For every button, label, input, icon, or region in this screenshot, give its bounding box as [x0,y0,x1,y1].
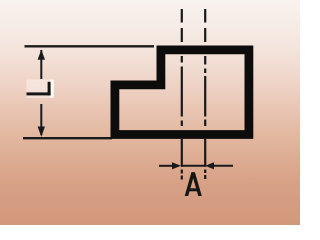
arrowhead up (L dimension) [38,50,45,60]
arrowhead down (L dimension) [38,127,45,137]
label L (rotated, drawn as strokes) [27,82,51,96]
centerline left, dashes below dimension line [181,170,183,174]
label A (drawn as strokes) [185,172,202,196]
centerline left, dashes above part [181,9,183,23]
label background box for L [27,80,54,99]
dimension line L upper shaft [40,50,42,79]
centerline right, dashes inside part [204,56,206,65]
dimension line L lower shaft [40,104,42,135]
centerline left, solid extension below part [181,139,183,167]
arrow left tail (A dimension) [159,165,173,167]
arrowhead left pointing right (A dimension) [172,162,181,169]
centerline right, dashes above part [204,9,206,23]
dimension line A connector between centerlines [182,165,205,167]
arrowhead right pointing left (A dimension) [205,162,214,169]
centerline left, dashes inside part [181,56,183,63]
extension line bottom (L dimension lower boundary) [23,137,112,139]
arrow right tail (A dimension) [213,165,233,167]
centerline right, solid extension below part [204,139,206,167]
extension line top (L dimension upper boundary) [25,45,155,47]
centerline right, dashes below dimension line [204,170,206,174]
part outline (stepped profile) [115,50,249,135]
